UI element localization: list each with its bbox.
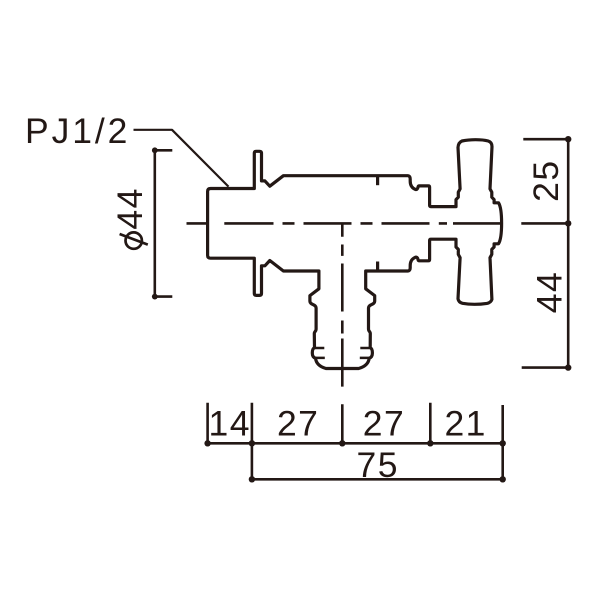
dimension phi44 line bbox=[154, 150, 173, 297]
bottom dimension line row1 bbox=[208, 442, 503, 445]
svg-text:25: 25 bbox=[526, 159, 566, 202]
label phi44 phi symbol bbox=[120, 232, 148, 248]
hose barb ridge stubs right bbox=[360, 348, 370, 358]
bottom dimension dots bbox=[204, 440, 506, 482]
leader line PJ1/2 bbox=[134, 130, 229, 187]
right dimension line bbox=[567, 139, 570, 367]
hose barb ridge stubs left bbox=[315, 348, 325, 358]
svg-text:44: 44 bbox=[110, 187, 150, 230]
valve body and handle outline bbox=[208, 140, 502, 369]
right dimension extension ticks bbox=[521, 139, 570, 367]
parting tick on bottom edge bbox=[376, 262, 379, 271]
dimension phi44 end dots bbox=[152, 147, 158, 153]
svg-text:27: 27 bbox=[363, 404, 406, 444]
right dimension dots bbox=[565, 136, 571, 371]
svg-text:14: 14 bbox=[209, 404, 252, 444]
svg-text:75: 75 bbox=[357, 445, 400, 485]
svg-text:44: 44 bbox=[530, 271, 570, 314]
svg-text:21: 21 bbox=[444, 404, 487, 444]
parting tick on top edge bbox=[376, 176, 379, 185]
svg-text:PJ1/2: PJ1/2 bbox=[25, 111, 130, 151]
svg-text:27: 27 bbox=[277, 404, 320, 444]
vertical centerline of spout bbox=[341, 223, 344, 386]
horizontal centerline bbox=[187, 222, 501, 225]
bottom extension lines bbox=[208, 403, 503, 480]
bottom dimension line row2 bbox=[252, 478, 503, 481]
